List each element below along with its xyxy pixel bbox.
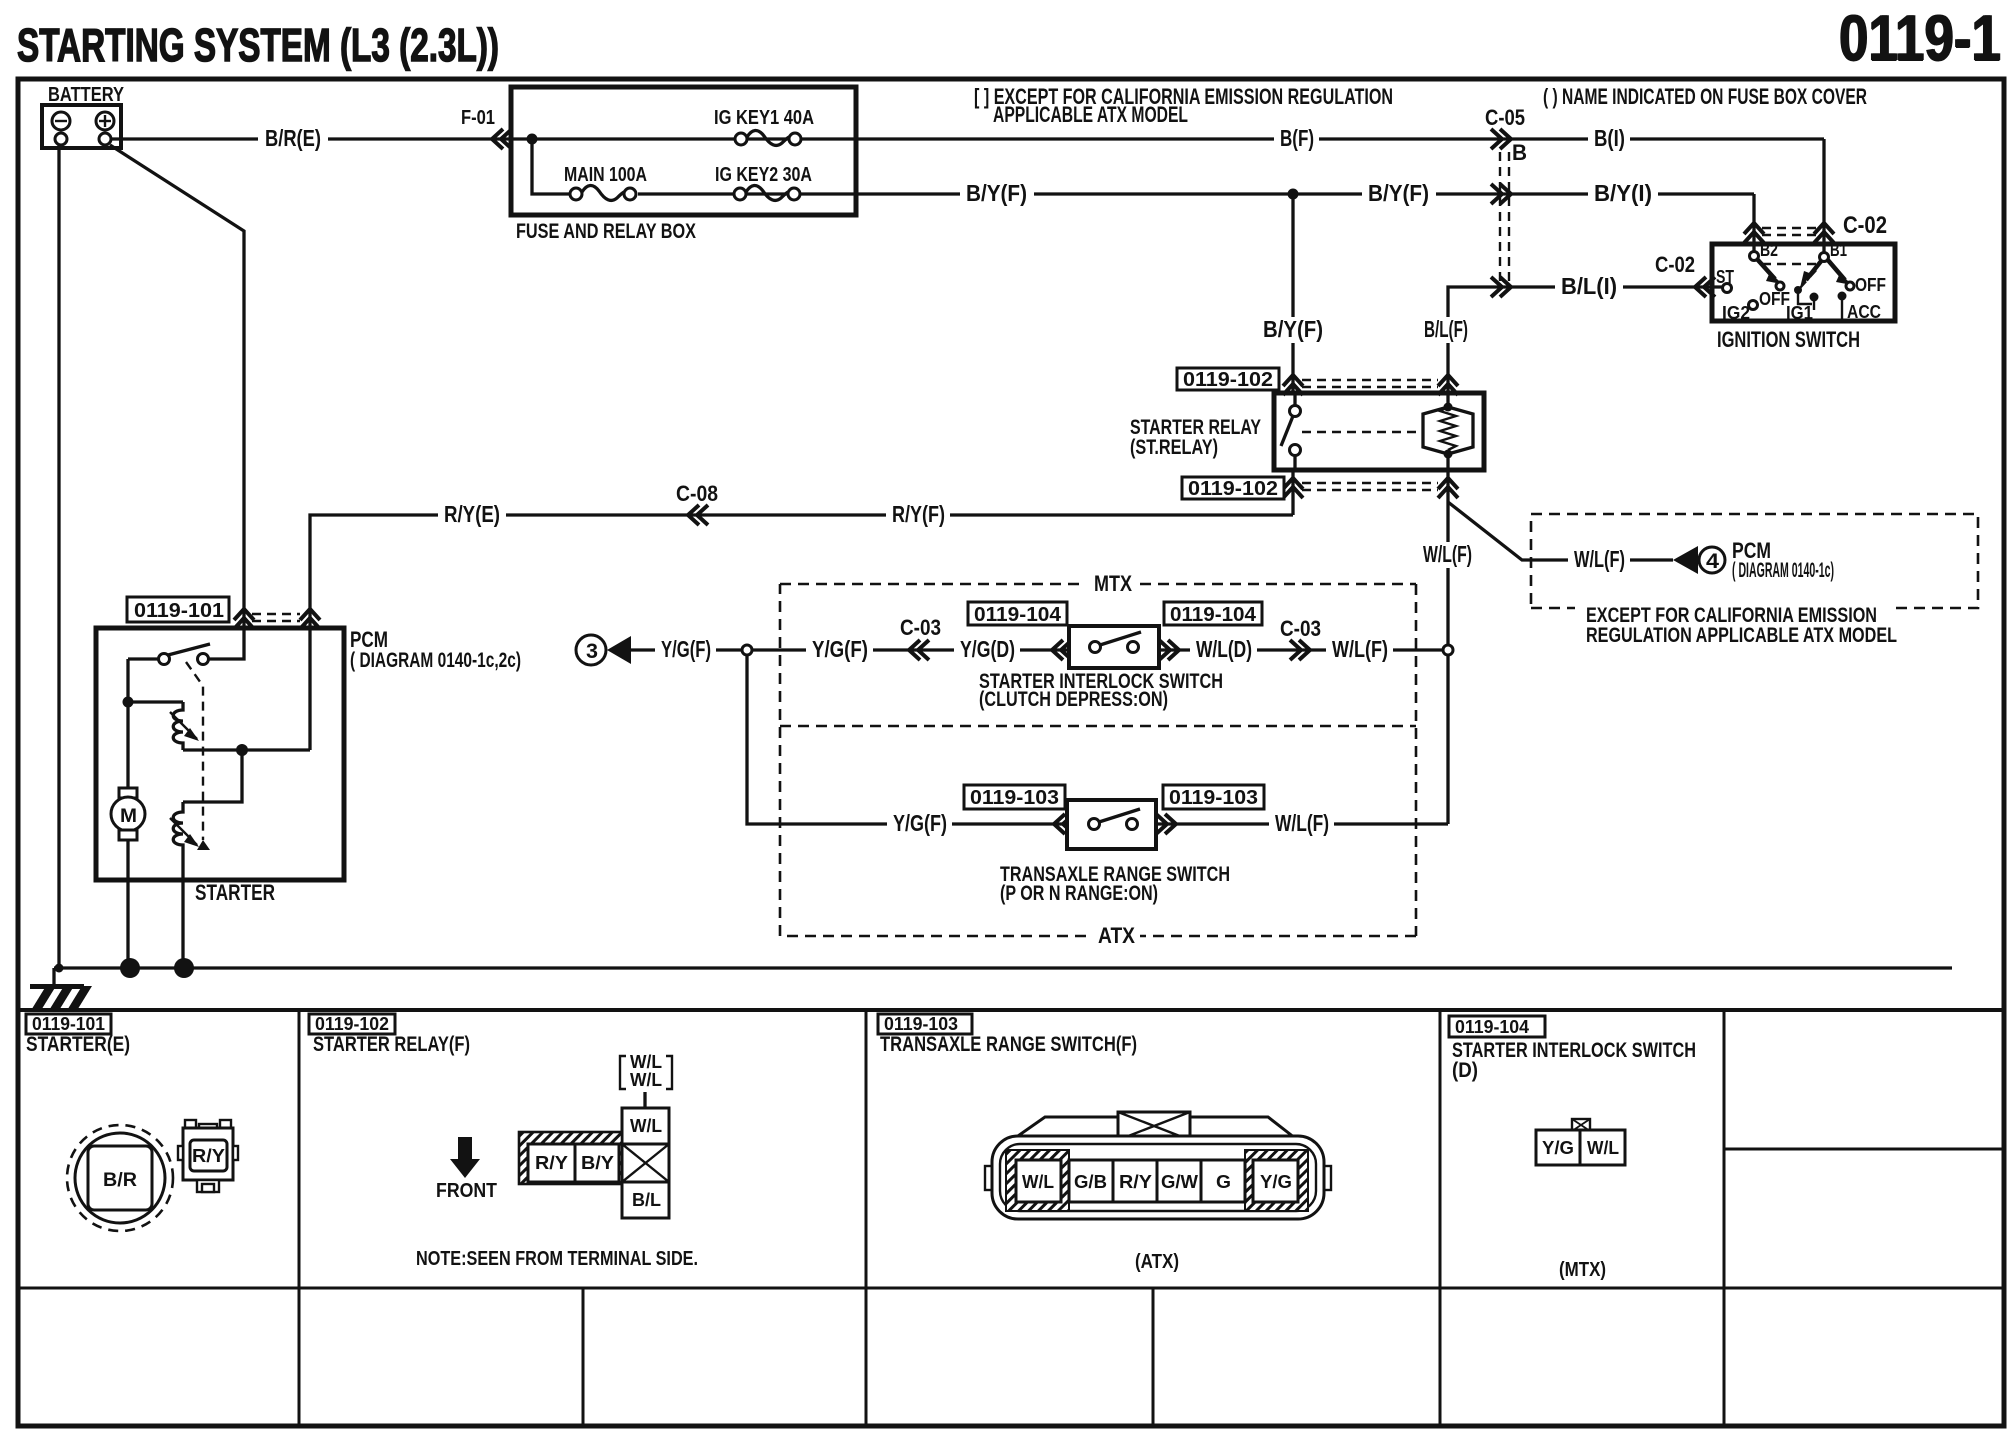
- svg-text:TRANSAXLE RANGE SWITCH(F): TRANSAXLE RANGE SWITCH(F): [880, 1033, 1137, 1056]
- svg-text:W/L(F): W/L(F): [1423, 541, 1472, 567]
- svg-text:W/L(D): W/L(D): [1196, 636, 1252, 662]
- svg-text:0119-101: 0119-101: [32, 1014, 105, 1034]
- svg-text:0119-102: 0119-102: [1183, 369, 1273, 391]
- svg-text:0119-103: 0119-103: [970, 787, 1059, 809]
- svg-text:R/Y: R/Y: [1119, 1172, 1152, 1192]
- svg-text:MTX: MTX: [1094, 571, 1132, 596]
- svg-text:STARTER(E): STARTER(E): [26, 1033, 130, 1056]
- svg-text:R/Y: R/Y: [535, 1153, 568, 1173]
- svg-text:B/L: B/L: [632, 1190, 661, 1210]
- svg-text:Y/G(D): Y/G(D): [960, 636, 1015, 662]
- svg-text:B/Y(F): B/Y(F): [1263, 316, 1323, 342]
- svg-text:Y/G: Y/G: [1260, 1172, 1292, 1192]
- svg-text:R/Y(E): R/Y(E): [444, 501, 500, 527]
- svg-text:C-03: C-03: [1280, 616, 1321, 641]
- svg-text:IG KEY1 40A: IG KEY1 40A: [714, 107, 814, 129]
- svg-text:IG KEY2 30A: IG KEY2 30A: [715, 164, 812, 186]
- svg-text:STARTER: STARTER: [195, 880, 275, 905]
- svg-text:C-08: C-08: [676, 481, 718, 506]
- svg-text:(ATX): (ATX): [1135, 1251, 1179, 1273]
- svg-text:B/L(I): B/L(I): [1561, 273, 1617, 299]
- svg-text:F-01: F-01: [461, 107, 495, 129]
- svg-text:Y/G: Y/G: [1542, 1138, 1574, 1158]
- svg-text:B1: B1: [1830, 240, 1847, 260]
- svg-text:0119-1: 0119-1: [1839, 2, 2001, 75]
- svg-text:Y/G(F): Y/G(F): [893, 810, 947, 836]
- svg-text:B/L(F): B/L(F): [1424, 316, 1468, 342]
- svg-text:0119-102: 0119-102: [1188, 478, 1278, 500]
- svg-text:B/R(E): B/R(E): [265, 125, 321, 151]
- svg-text:B/Y(F): B/Y(F): [1368, 180, 1429, 206]
- svg-text:G: G: [1216, 1172, 1231, 1192]
- svg-text:C-05: C-05: [1485, 105, 1525, 130]
- svg-text:( DIAGRAM 0140-1c): ( DIAGRAM 0140-1c): [1732, 559, 1834, 582]
- svg-text:(D): (D): [1452, 1059, 1478, 1082]
- svg-text:C-02: C-02: [1843, 212, 1887, 239]
- svg-text:C-03: C-03: [900, 615, 941, 640]
- svg-text:0119-102: 0119-102: [315, 1014, 389, 1034]
- svg-text:STARTER RELAY(F): STARTER RELAY(F): [313, 1033, 470, 1056]
- svg-text:IG2: IG2: [1722, 303, 1750, 323]
- svg-text:B/Y: B/Y: [581, 1153, 614, 1173]
- svg-text:REGULATION APPLICABLE ATX MODE: REGULATION APPLICABLE ATX MODEL: [1586, 624, 1897, 647]
- svg-text:W/L(F): W/L(F): [1574, 546, 1625, 572]
- svg-text:( DIAGRAM 0140-1c,2c): ( DIAGRAM 0140-1c,2c): [350, 649, 521, 672]
- svg-text:C-02: C-02: [1655, 252, 1695, 277]
- svg-text:B(F): B(F): [1280, 125, 1314, 151]
- svg-text:0119-104: 0119-104: [974, 604, 1062, 626]
- svg-text:ACC: ACC: [1847, 302, 1881, 322]
- svg-text:APPLICABLE ATX MODEL: APPLICABLE ATX MODEL: [993, 102, 1188, 127]
- svg-text:G/W: G/W: [1161, 1172, 1198, 1192]
- svg-text:W/L: W/L: [630, 1070, 662, 1090]
- svg-text:IGNITION SWITCH: IGNITION SWITCH: [1717, 327, 1860, 352]
- svg-text:B/Y(F): B/Y(F): [966, 180, 1027, 206]
- svg-text:OFF: OFF: [1855, 275, 1886, 295]
- svg-text:BATTERY: BATTERY: [48, 84, 125, 106]
- svg-text:(ST.RELAY): (ST.RELAY): [1130, 436, 1218, 459]
- svg-text:0119-103: 0119-103: [884, 1014, 958, 1034]
- svg-text:B2: B2: [1760, 240, 1778, 260]
- svg-text:(CLUTCH DEPRESS:ON): (CLUTCH DEPRESS:ON): [979, 688, 1168, 711]
- svg-text:(MTX): (MTX): [1559, 1259, 1606, 1281]
- svg-text:3: 3: [586, 640, 598, 663]
- svg-text:(P OR N RANGE:ON): (P OR N RANGE:ON): [1000, 882, 1158, 905]
- svg-text:0119-104: 0119-104: [1455, 1017, 1529, 1037]
- svg-text:STARTER INTERLOCK SWITCH: STARTER INTERLOCK SWITCH: [1452, 1039, 1696, 1062]
- svg-text:B/R: B/R: [103, 1170, 137, 1191]
- svg-text:B: B: [1512, 140, 1527, 165]
- svg-text:0119-101: 0119-101: [134, 600, 224, 622]
- svg-text:0119-104: 0119-104: [1170, 604, 1257, 626]
- svg-text:B/Y(I): B/Y(I): [1594, 180, 1652, 206]
- svg-text:Y/G(F): Y/G(F): [661, 636, 711, 662]
- svg-text:W/L: W/L: [630, 1116, 662, 1136]
- svg-text:NOTE:SEEN FROM TERMINAL SIDE.: NOTE:SEEN FROM TERMINAL SIDE.: [416, 1248, 698, 1270]
- svg-text:MAIN 100A: MAIN 100A: [564, 164, 647, 186]
- svg-text:Y/G(F): Y/G(F): [812, 636, 868, 662]
- svg-text:B(I): B(I): [1594, 125, 1625, 151]
- svg-text:IG1: IG1: [1786, 303, 1813, 323]
- svg-text:W/L: W/L: [1587, 1138, 1619, 1158]
- svg-text:ATX: ATX: [1098, 923, 1135, 948]
- svg-text:R/Y(F): R/Y(F): [892, 501, 945, 527]
- svg-text:FUSE AND RELAY BOX: FUSE AND RELAY BOX: [516, 220, 696, 243]
- svg-text:W/L(F): W/L(F): [1275, 810, 1329, 836]
- svg-text:G/B: G/B: [1074, 1172, 1107, 1192]
- svg-text:R/Y: R/Y: [192, 1146, 225, 1166]
- svg-text:ST: ST: [1716, 267, 1734, 287]
- svg-text:4: 4: [1706, 550, 1719, 573]
- svg-text:( ) NAME INDICATED ON FUSE BOX: ( ) NAME INDICATED ON FUSE BOX COVER: [1543, 84, 1867, 109]
- svg-text:W/L: W/L: [1022, 1172, 1054, 1192]
- svg-text:W/L(F): W/L(F): [1332, 636, 1388, 662]
- svg-text:FRONT: FRONT: [436, 1180, 497, 1202]
- svg-text:0119-103: 0119-103: [1169, 787, 1258, 809]
- svg-text:STARTING SYSTEM (L3 (2.3L)): STARTING SYSTEM (L3 (2.3L)): [17, 19, 499, 71]
- svg-text:W/L: W/L: [630, 1052, 662, 1072]
- svg-text:M: M: [120, 806, 137, 827]
